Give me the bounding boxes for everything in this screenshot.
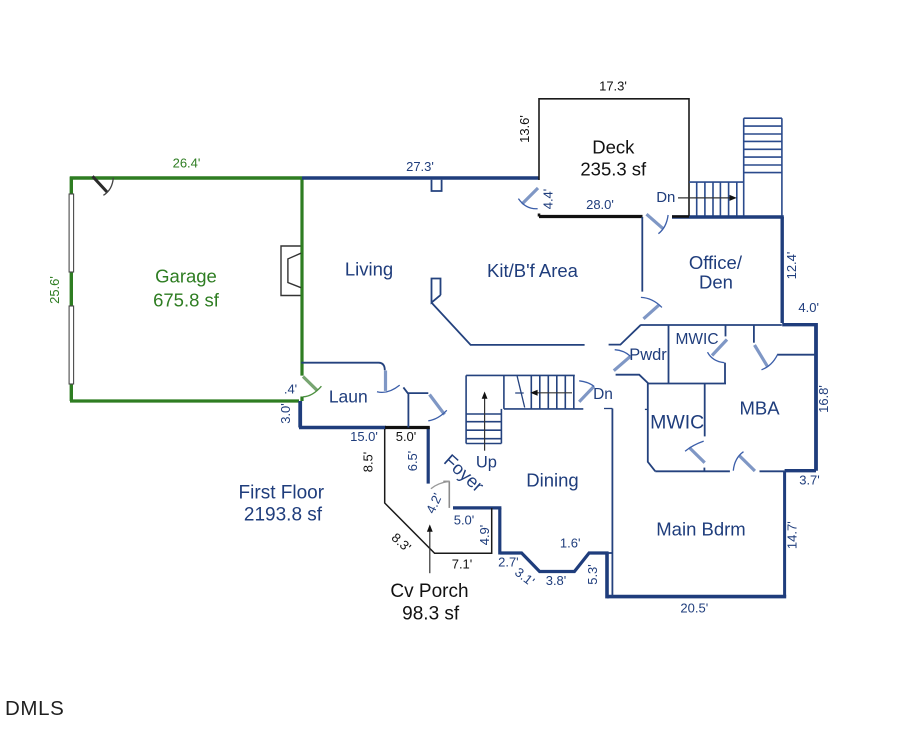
mwic1 right wall [724,363,726,384]
svg-text:4.9': 4.9' [477,525,492,546]
svg-text:15.0': 15.0' [350,429,378,444]
hall door (kit to hallway) [641,297,662,318]
left wall 5.3' [605,553,609,598]
svg-text:1.6': 1.6' [560,536,581,551]
svg-text:25.6': 25.6' [47,276,62,304]
svg-text:98.3 sf: 98.3 sf [402,604,460,625]
svg-text:8.5': 8.5' [361,452,376,473]
garage window 1 [69,194,74,384]
wall 15.0' [299,426,386,429]
pwdr right wall [668,325,670,384]
deck stairs: lower horizontal run [689,182,744,215]
bay to divider link [607,552,612,554]
kitchen counter line [432,303,585,345]
tick below mwic2 door [703,468,705,472]
foyer closet wall [407,393,409,427]
deck outline (black) [539,98,689,216]
jog 3.7' [785,469,816,472]
pwdr bottom wall [616,375,649,384]
laun/foyer wall piece [403,387,428,393]
svg-text:Living: Living [345,259,393,280]
svg-text:27.3': 27.3' [406,159,434,174]
fireplace on garage right wall [281,246,301,296]
break line [515,376,525,408]
deck bottom wall / house top wall 28.0' (black thick) [539,214,689,217]
right wall office/den 12.4' [781,217,784,323]
dining bay window walls [500,553,609,572]
svg-text:675.8 sf: 675.8 sf [153,290,220,311]
garage walls (green) [70,177,302,402]
kitchen peninsula stub [432,279,441,303]
svg-text:Office/: Office/ [689,252,743,273]
svg-text:14.7': 14.7' [785,521,800,549]
svg-text:Dn: Dn [656,189,675,206]
laun top wall [301,363,385,371]
porch entry arrow (black) [427,524,433,573]
svg-text:Main Bdrm: Main Bdrm [656,519,745,540]
svg-text:Garage: Garage [155,266,217,287]
interior walls (thin blue) [301,180,816,597]
top wall living/kit [302,176,539,179]
foyer bottom wall 5.0' [453,506,501,509]
main bdrm top wall segments [655,470,784,472]
cv porch outline (black thin) [385,429,492,553]
svg-text:12.4': 12.4' [784,252,799,280]
garage window 2 [69,306,74,384]
jog 4.0' [782,323,816,326]
Dn arrow (interior stairs, black) [530,390,572,396]
svg-text:5.0': 5.0' [454,513,475,528]
mwic1 door stub [725,325,727,336]
svg-text:DMLS: DMLS [5,697,64,720]
exterior walls (blue thick) [299,178,816,598]
svg-text:3.7': 3.7' [799,473,820,488]
right wall MBA 16.8' [814,323,818,471]
svg-text:5.3': 5.3' [585,564,600,585]
hall / mwic / mba top wall [641,324,782,326]
svg-text:Cv Porch: Cv Porch [390,581,468,602]
foyer closet door [428,395,447,421]
svg-text:6.5': 6.5' [405,451,420,472]
dining / main bdrm divider [611,409,613,597]
svg-text:235.3 sf: 235.3 sf [580,159,647,180]
svg-text:2193.8 sf: 2193.8 sf [244,505,323,526]
svg-text:2.7': 2.7' [498,555,519,570]
svg-text:5.0': 5.0' [396,429,417,444]
mwic1 door [708,340,728,363]
svg-text:4.0': 4.0' [798,300,819,315]
wall under deck stairs [672,215,784,219]
basement stair door [579,381,594,402]
svg-text:13.6': 13.6' [517,115,532,143]
svg-text:MBA: MBA [739,398,780,419]
svg-text:20.5': 20.5' [680,601,708,616]
bottom wall 20.5' [607,595,786,599]
deck stairs: upper vertical run [744,118,782,215]
svg-text:MWIC: MWIC [675,331,718,348]
svg-text:28.0': 28.0' [586,197,614,212]
interior staircase [466,375,583,443]
porch top wall (black thick) [385,426,430,429]
mba entry door [755,345,778,370]
mba door stub [753,325,755,343]
garage to laun door (green) [303,377,321,397]
svg-text:26.4': 26.4' [173,156,201,171]
foyer left wall 6.5' [427,428,430,484]
mwic2 right wall [704,384,706,437]
mwic2 door [685,441,705,463]
svg-text:Deck: Deck [592,137,635,158]
svg-text:First Floor: First Floor [239,483,325,504]
office/kit door on top wall [647,214,669,234]
svg-text:16.8': 16.8' [816,385,831,413]
porch-side wall 4.9' [498,508,501,555]
Up arrow (black) [482,392,488,451]
svg-text:Dining: Dining [526,470,578,491]
svg-text:3.8': 3.8' [546,573,567,588]
svg-text:Kit/B'f Area: Kit/B'f Area [487,260,579,281]
svg-text:3.0': 3.0' [278,403,293,424]
pwdr door [614,350,631,371]
jog 3.0' [298,401,302,428]
svg-text:17.3': 17.3' [599,79,627,94]
svg-text:Pwdr: Pwdr [629,346,667,364]
counter segment near pwdr [609,325,641,345]
main bdrm door [733,452,755,471]
svg-text:Laun: Laun [329,387,368,407]
garage entry door (black) [93,176,114,195]
front door (gray) [431,481,450,508]
laun door [377,371,400,393]
office/den left wall [641,217,643,292]
svg-text:7.1': 7.1' [452,557,473,572]
room labels [153,137,780,625]
mba side wall [777,354,816,356]
dimension labels [47,79,831,616]
svg-text:4.4': 4.4' [541,189,556,210]
svg-text:.4': .4' [284,382,297,397]
svg-text:Den: Den [699,272,733,293]
right wall main bdrm 14.7' [783,471,786,597]
svg-text:MWIC: MWIC [650,412,704,434]
tick on mwic2 left wall [645,408,649,410]
svg-text:Up: Up [476,453,497,471]
wall stub below top wall [432,180,442,191]
Dn arrow (deck stairs, black) [678,195,737,201]
mwic2 left wall [648,384,656,472]
hall bottom wall [648,383,726,385]
deck patio door 4.4' [518,188,538,209]
tick at divider top [604,408,612,410]
svg-text:Dn: Dn [593,386,613,403]
